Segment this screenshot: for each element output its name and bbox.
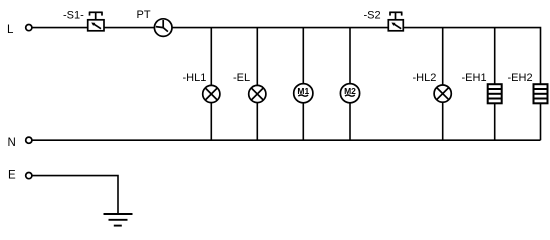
wire E to ground	[32, 176, 118, 214]
svg-text:PT: PT	[137, 9, 151, 21]
wire L: S2 to top-right corner, down to EH2	[403, 28, 541, 85]
wire EL branch bottom	[256, 103, 258, 141]
wire EH2 branch bottom	[540, 103, 542, 140]
terminal N	[26, 137, 32, 143]
svg-text:E: E	[8, 170, 16, 182]
wire HL1 branch top	[210, 28, 212, 86]
terminal L	[26, 25, 32, 31]
heater EH2	[534, 84, 548, 103]
wire HL2 branch top	[442, 28, 444, 85]
wire M2 branch top	[349, 28, 351, 84]
timer PT	[154, 19, 172, 37]
wire M1 branch bottom	[302, 103, 304, 140]
motor M1	[294, 84, 313, 103]
svg-text:L: L	[7, 24, 14, 36]
terminal E	[26, 173, 32, 179]
ground	[104, 214, 133, 226]
switch S1	[88, 12, 104, 31]
wire HL1 branch bottom	[210, 103, 212, 141]
motor M2	[340, 84, 359, 103]
wire M2 branch bottom	[349, 103, 351, 140]
svg-text:-HL2: -HL2	[413, 72, 437, 84]
wire EL branch top	[256, 28, 258, 86]
lamp HL2	[434, 85, 451, 102]
wire L: terminal to S1	[32, 27, 88, 29]
heater EH1	[488, 84, 502, 103]
switch S2	[388, 12, 403, 31]
svg-text:-EH1: -EH1	[462, 72, 487, 84]
wire N bus	[32, 139, 540, 141]
svg-text:M1: M1	[297, 86, 309, 96]
lamp HL1	[203, 85, 220, 102]
svg-text:-S2: -S2	[364, 9, 381, 21]
wire M1 branch top	[302, 28, 304, 84]
svg-text:M2: M2	[344, 86, 356, 96]
wire L: PT to S2	[172, 27, 389, 29]
wire HL2 branch bottom	[442, 102, 444, 140]
svg-text:-HL1: -HL1	[183, 72, 207, 84]
svg-text:-EH2: -EH2	[508, 72, 533, 84]
wire EH1 branch top	[494, 28, 496, 85]
svg-text:-EL: -EL	[233, 72, 250, 84]
svg-text:N: N	[8, 137, 16, 149]
wire EH1 branch bottom	[494, 103, 496, 140]
svg-text:-S1-: -S1-	[63, 9, 84, 21]
wire L: S1 to PT	[104, 27, 155, 29]
lamp EL	[249, 85, 266, 102]
